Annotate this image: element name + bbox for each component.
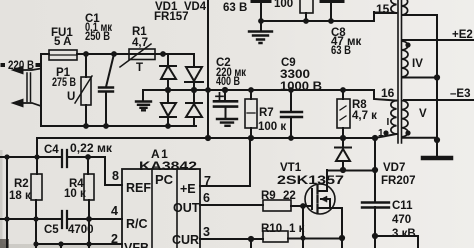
svg-text:6: 6 xyxy=(203,191,210,205)
svg-text:R10: R10 xyxy=(261,223,282,235)
svg-text:FR207: FR207 xyxy=(381,175,416,187)
svg-text:0,22 мк: 0,22 мк xyxy=(70,143,112,155)
svg-text:8: 8 xyxy=(112,169,119,183)
svg-text:1 к: 1 к xyxy=(289,223,305,235)
svg-text:R/C: R/C xyxy=(126,217,148,231)
svg-text:R9: R9 xyxy=(261,190,276,202)
svg-text:3 кВ: 3 кВ xyxy=(392,228,416,240)
svg-text:+E: +E xyxy=(180,182,196,196)
svg-text:C11: C11 xyxy=(392,200,413,212)
svg-text:7: 7 xyxy=(204,174,211,188)
svg-text:PC: PC xyxy=(155,172,174,187)
svg-text:VFB: VFB xyxy=(124,241,149,248)
svg-text:2: 2 xyxy=(111,232,118,246)
svg-text:4,7: 4,7 xyxy=(132,37,148,49)
svg-text:–E3: –E3 xyxy=(450,88,470,100)
svg-text:FR157: FR157 xyxy=(154,11,189,23)
svg-text:CUR: CUR xyxy=(172,233,199,247)
svg-text:VT1: VT1 xyxy=(280,162,302,174)
svg-text:10 к: 10 к xyxy=(64,188,86,200)
svg-text:T: T xyxy=(136,62,143,74)
svg-text:5 A: 5 A xyxy=(54,36,71,48)
svg-text:100 к: 100 к xyxy=(258,121,286,133)
svg-text:V: V xyxy=(419,108,427,120)
svg-text:3: 3 xyxy=(203,225,210,239)
svg-text:63 В: 63 В xyxy=(331,45,351,57)
svg-text:REF: REF xyxy=(126,181,151,195)
svg-text:R7: R7 xyxy=(259,107,274,119)
svg-text:R2: R2 xyxy=(14,178,29,190)
svg-text:1000 В: 1000 В xyxy=(280,81,322,93)
svg-text:3300: 3300 xyxy=(280,69,310,81)
svg-text:A1: A1 xyxy=(151,147,169,161)
svg-text:22: 22 xyxy=(283,190,296,202)
svg-text:1: 1 xyxy=(378,128,384,139)
svg-text:+E2: +E2 xyxy=(452,29,473,41)
svg-text:IV: IV xyxy=(412,58,423,70)
svg-text:16: 16 xyxy=(381,86,395,100)
svg-text:250 В: 250 В xyxy=(85,31,110,43)
svg-text:470: 470 xyxy=(392,214,411,226)
svg-text:VD7: VD7 xyxy=(383,162,405,174)
svg-text:220 В: 220 В xyxy=(8,60,34,72)
svg-text:4: 4 xyxy=(111,204,118,218)
svg-text:275 В: 275 В xyxy=(52,77,76,89)
svg-text:I: I xyxy=(387,117,390,128)
svg-text:100: 100 xyxy=(274,0,293,10)
svg-text:OUT: OUT xyxy=(173,201,200,215)
svg-text:15: 15 xyxy=(376,2,390,16)
svg-text:63 В: 63 В xyxy=(223,2,247,14)
svg-text:C9: C9 xyxy=(281,57,296,69)
svg-text:400 В: 400 В xyxy=(216,76,240,88)
svg-text:2SK1357: 2SK1357 xyxy=(277,175,344,187)
svg-text:U: U xyxy=(67,91,75,103)
svg-text:4,7 к: 4,7 к xyxy=(352,110,377,122)
svg-text:C4: C4 xyxy=(44,144,59,156)
svg-text:C5: C5 xyxy=(44,224,59,236)
svg-text:4700: 4700 xyxy=(68,224,94,236)
svg-text:18 к: 18 к xyxy=(9,190,31,202)
